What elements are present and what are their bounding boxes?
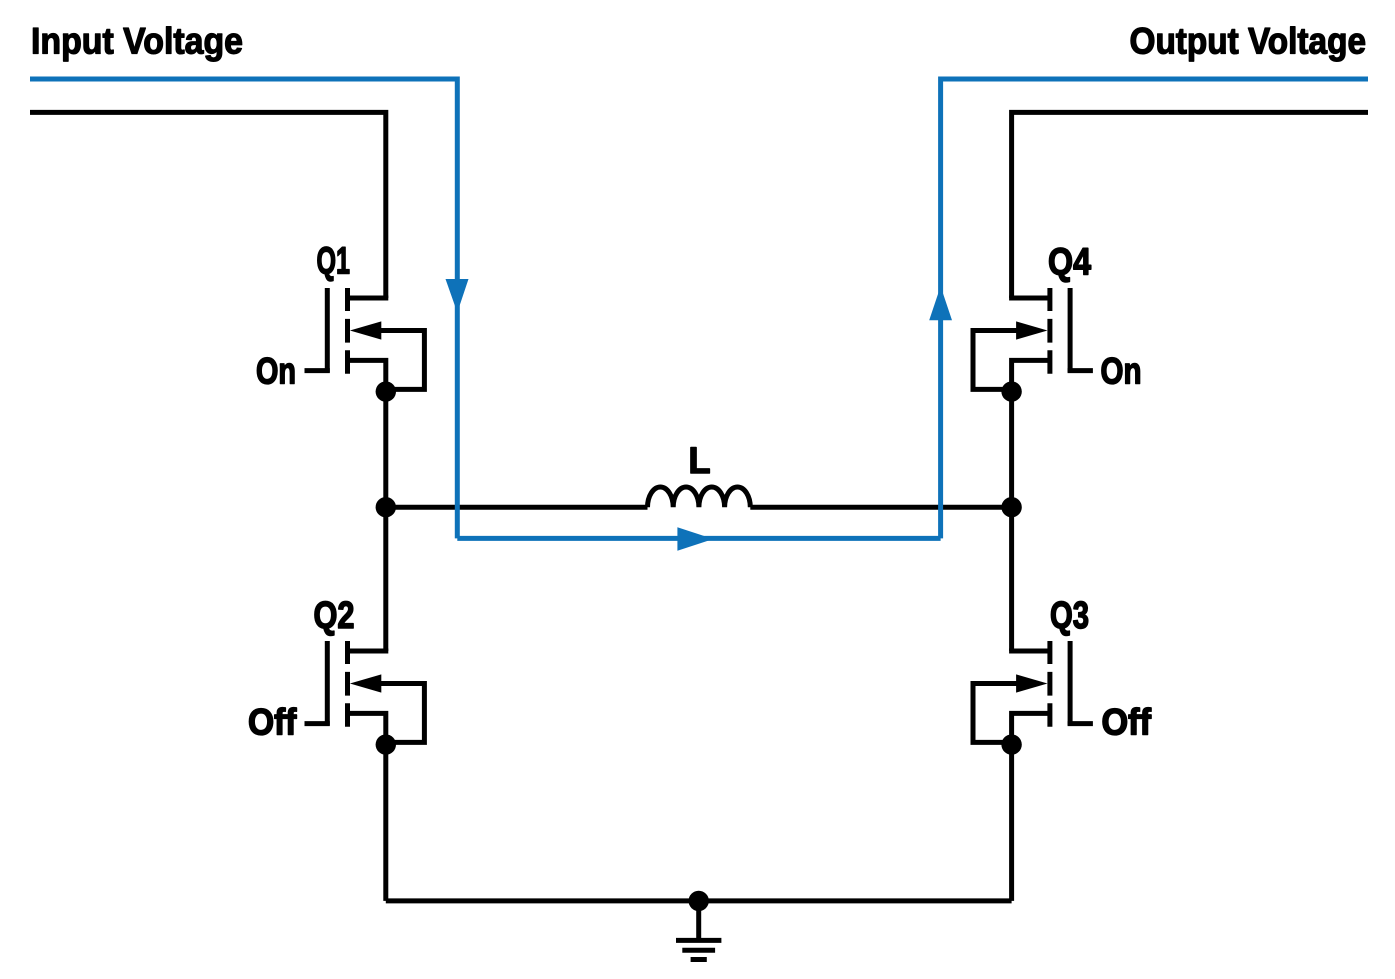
node A junction dot [376, 497, 396, 517]
wire: inductor right to node B [750, 505, 1011, 510]
wire: output voltage top rail to Q4 drain [1012, 112, 1368, 298]
svg-text:Off: Off [248, 702, 297, 743]
svg-text:Output Voltage: Output Voltage [1130, 21, 1367, 62]
blue arrow up (output current) [929, 286, 952, 320]
transistor Q2 [305, 641, 425, 755]
wire: Q4 source to node B [1009, 392, 1014, 508]
wire: Q3 source to bottom rail [1009, 745, 1014, 901]
wire: blue current path input segment [30, 79, 457, 538]
transistor Q1 [305, 288, 425, 402]
wire: blue current path middle segment [457, 536, 940, 541]
ground symbol [676, 901, 721, 960]
svg-text:On: On [1101, 350, 1142, 391]
svg-text:Q1: Q1 [317, 241, 351, 283]
node B junction dot [1001, 497, 1021, 517]
svg-text:Off: Off [1102, 702, 1152, 743]
ground junction dot [689, 891, 709, 911]
svg-text:Q2: Q2 [314, 595, 355, 637]
wire: input voltage top rail to Q1 drain [30, 112, 386, 298]
wire: bottom ground rail [386, 898, 1012, 903]
svg-text:On: On [256, 350, 296, 391]
svg-text:L: L [689, 440, 711, 481]
svg-text:Q3: Q3 [1050, 595, 1089, 637]
transistor Q4 [973, 288, 1093, 402]
svg-text:Q4: Q4 [1048, 242, 1091, 284]
wire: blue current path output segment [941, 79, 1368, 538]
blue arrow down (input current) [446, 279, 469, 313]
wire: Q1 source to node A [383, 392, 388, 508]
blue arrow right (inductor current) [677, 527, 713, 551]
inductor L [648, 487, 751, 507]
wire: Q2 source to bottom rail [383, 745, 388, 901]
wire: node A to Q2 drain [383, 507, 388, 651]
svg-text:Input Voltage: Input Voltage [31, 21, 243, 62]
wire: node A to inductor left [386, 505, 648, 510]
wire: node B to Q3 drain [1009, 507, 1014, 651]
transistor Q3 [973, 641, 1093, 755]
